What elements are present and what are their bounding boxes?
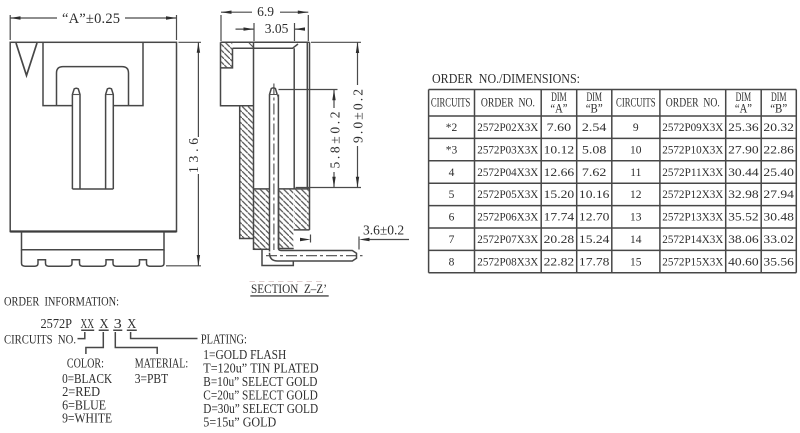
svg-text:10.12: 10.12 xyxy=(544,144,575,156)
svg-text:15.24: 15.24 xyxy=(579,234,610,246)
svg-text:5=15u” GOLD: 5=15u” GOLD xyxy=(203,415,276,430)
svg-text:25.40: 25.40 xyxy=(763,167,794,179)
svg-text:38.06: 38.06 xyxy=(728,234,759,246)
plating leader line xyxy=(131,332,198,339)
svg-text:X: X xyxy=(100,316,109,331)
circuits no label and leader xyxy=(4,332,85,347)
front view feet xyxy=(22,250,165,266)
svg-text:2572P04X3X: 2572P04X3X xyxy=(477,167,539,179)
svg-text:22.82: 22.82 xyxy=(544,256,575,268)
svg-text:20.32: 20.32 xyxy=(763,122,794,134)
svg-text:*3: *3 xyxy=(446,144,458,156)
svg-text:7: 7 xyxy=(449,234,455,246)
svg-text:“B”: “B” xyxy=(770,100,787,115)
front view pin 2 xyxy=(106,88,114,189)
svg-text:COLOR:: COLOR: xyxy=(67,355,104,370)
svg-text:“B”: “B” xyxy=(586,100,603,115)
svg-text:5: 5 xyxy=(449,189,455,201)
front view housing outline xyxy=(10,42,176,231)
svg-text:2572P10X3X: 2572P10X3X xyxy=(662,144,724,156)
svg-text:17.74: 17.74 xyxy=(544,212,575,224)
svg-text:3: 3 xyxy=(114,316,122,331)
svg-text:20.28: 20.28 xyxy=(544,234,575,246)
section title xyxy=(250,282,328,296)
dimension 13.6 right xyxy=(166,42,201,265)
svg-text:SECTION Z–Z’: SECTION Z–Z’ xyxy=(251,282,327,296)
svg-text:2572P07X3X: 2572P07X3X xyxy=(477,234,539,246)
section cavity divider xyxy=(253,42,255,238)
svg-text:5.08: 5.08 xyxy=(582,144,607,156)
section right cavity wall xyxy=(293,48,295,189)
section hidden dashed line below xyxy=(250,281,326,283)
svg-text:2572P12X3X: 2572P12X3X xyxy=(662,189,724,201)
svg-text:“A”±0.25: “A”±0.25 xyxy=(62,11,120,27)
section pin vertical xyxy=(270,88,279,252)
svg-text:“A”: “A” xyxy=(550,100,567,115)
svg-text:9: 9 xyxy=(633,122,639,134)
dimension 5.8±0.2 xyxy=(279,90,343,188)
svg-text:7.60: 7.60 xyxy=(547,122,572,134)
svg-text:PLATING:: PLATING: xyxy=(201,332,247,347)
svg-text:17.78: 17.78 xyxy=(579,256,610,268)
table header row xyxy=(431,89,788,116)
svg-text:15.20: 15.20 xyxy=(544,189,575,201)
svg-text:27.94: 27.94 xyxy=(763,189,794,201)
plating list xyxy=(201,332,319,430)
svg-text:12.66: 12.66 xyxy=(544,167,575,179)
svg-text:8: 8 xyxy=(449,256,455,268)
front view slot bottom xyxy=(72,188,113,190)
svg-text:4: 4 xyxy=(449,167,455,179)
dimension A±0.25 top xyxy=(10,11,176,40)
svg-text:30.48: 30.48 xyxy=(763,212,794,224)
front view pin 1 xyxy=(72,88,80,189)
svg-text:X: X xyxy=(127,316,136,331)
svg-text:25.36: 25.36 xyxy=(728,122,759,134)
svg-text:2572P11X3X: 2572P11X3X xyxy=(662,167,724,179)
svg-text:35.52: 35.52 xyxy=(728,212,759,224)
svg-text:22.86: 22.86 xyxy=(763,144,794,156)
svg-text:2.54: 2.54 xyxy=(582,122,607,134)
material list xyxy=(135,355,189,386)
svg-text:“A”: “A” xyxy=(735,100,752,115)
section front plate xyxy=(307,42,309,230)
color leader bracket xyxy=(86,332,103,354)
svg-text:3.05: 3.05 xyxy=(265,21,289,36)
svg-text:27.90: 27.90 xyxy=(728,144,759,156)
front view inner wall left xyxy=(43,42,72,105)
svg-text:2572P03X3X: 2572P03X3X xyxy=(477,144,539,156)
svg-text:ORDER NO./DIMENSIONS:: ORDER NO./DIMENSIONS: xyxy=(432,72,580,87)
svg-text:2572P08X3X: 2572P08X3X xyxy=(477,256,539,268)
svg-text:*2: *2 xyxy=(446,122,458,134)
svg-text:40.60: 40.60 xyxy=(728,256,759,268)
svg-text:2572P06X3X: 2572P06X3X xyxy=(477,212,539,224)
section housing top edge xyxy=(221,42,310,48)
svg-text:CIRCUITS: CIRCUITS xyxy=(616,95,656,110)
svg-text:15: 15 xyxy=(630,256,642,268)
svg-text:33.02: 33.02 xyxy=(763,234,794,246)
svg-text:12.70: 12.70 xyxy=(579,212,610,224)
svg-text:3=PBT: 3=PBT xyxy=(135,371,169,386)
svg-text:2572P15X3X: 2572P15X3X xyxy=(662,256,724,268)
dimension 6.9 xyxy=(221,4,308,41)
svg-text:2572P09X3X: 2572P09X3X xyxy=(662,122,724,134)
svg-text:32.98: 32.98 xyxy=(728,189,759,201)
front view polarization V notch xyxy=(16,43,37,76)
part number line xyxy=(41,316,137,331)
svg-text:CIRCUITS: CIRCUITS xyxy=(431,95,471,110)
section bottom foot tab xyxy=(262,249,293,265)
front view mating cavity xyxy=(57,67,129,106)
svg-text:6: 6 xyxy=(449,212,455,224)
svg-text:3.6±0.2: 3.6±0.2 xyxy=(363,223,404,238)
section left wall upper xyxy=(221,42,255,105)
svg-text:ORDER NO.: ORDER NO. xyxy=(666,95,720,110)
svg-text:ORDER NO.: ORDER NO. xyxy=(481,95,535,110)
svg-text:14: 14 xyxy=(630,234,642,246)
svg-text:11: 11 xyxy=(630,167,641,179)
table heading xyxy=(432,72,580,87)
section pin bend and horizontal tail xyxy=(270,248,357,261)
svg-text:12: 12 xyxy=(630,189,642,201)
svg-text:6.9: 6.9 xyxy=(257,4,274,19)
material leader bracket xyxy=(115,332,157,354)
svg-text:9=WHITE: 9=WHITE xyxy=(62,411,112,426)
dimension 3.6±0.2 xyxy=(300,223,409,250)
svg-text:CIRCUITS NO.: CIRCUITS NO. xyxy=(4,332,76,347)
color list xyxy=(62,355,112,425)
svg-text:7.62: 7.62 xyxy=(582,167,607,179)
svg-text:ORDER INFORMATION:: ORDER INFORMATION: xyxy=(4,295,119,309)
section left wall lower xyxy=(240,106,262,250)
dimension 3.05 xyxy=(236,21,306,41)
svg-text:2572P13X3X: 2572P13X3X xyxy=(662,212,724,224)
svg-text:10: 10 xyxy=(630,144,642,156)
section slot bottom and mid hatch xyxy=(254,189,270,249)
svg-text:MATERIAL:: MATERIAL: xyxy=(135,355,189,370)
svg-text:XX: XX xyxy=(81,316,95,331)
svg-text:35.56: 35.56 xyxy=(763,256,794,268)
front view inner wall right xyxy=(113,42,143,105)
svg-text:2572P14X3X: 2572P14X3X xyxy=(662,234,724,246)
front view base block xyxy=(22,232,165,250)
svg-text:2572P05X3X: 2572P05X3X xyxy=(477,189,539,201)
order table grid xyxy=(429,90,797,273)
section lower hatch blocks xyxy=(254,189,310,249)
table data rows xyxy=(446,122,794,268)
section pin center line xyxy=(266,84,363,256)
svg-text:30.44: 30.44 xyxy=(728,167,759,179)
svg-text:10.16: 10.16 xyxy=(579,189,610,201)
svg-text:2572P: 2572P xyxy=(41,316,73,331)
svg-text:13: 13 xyxy=(630,212,642,224)
svg-text:2572P02X3X: 2572P02X3X xyxy=(477,122,539,134)
order information heading xyxy=(4,295,119,309)
dimension 9.0±0.2 xyxy=(296,42,366,187)
